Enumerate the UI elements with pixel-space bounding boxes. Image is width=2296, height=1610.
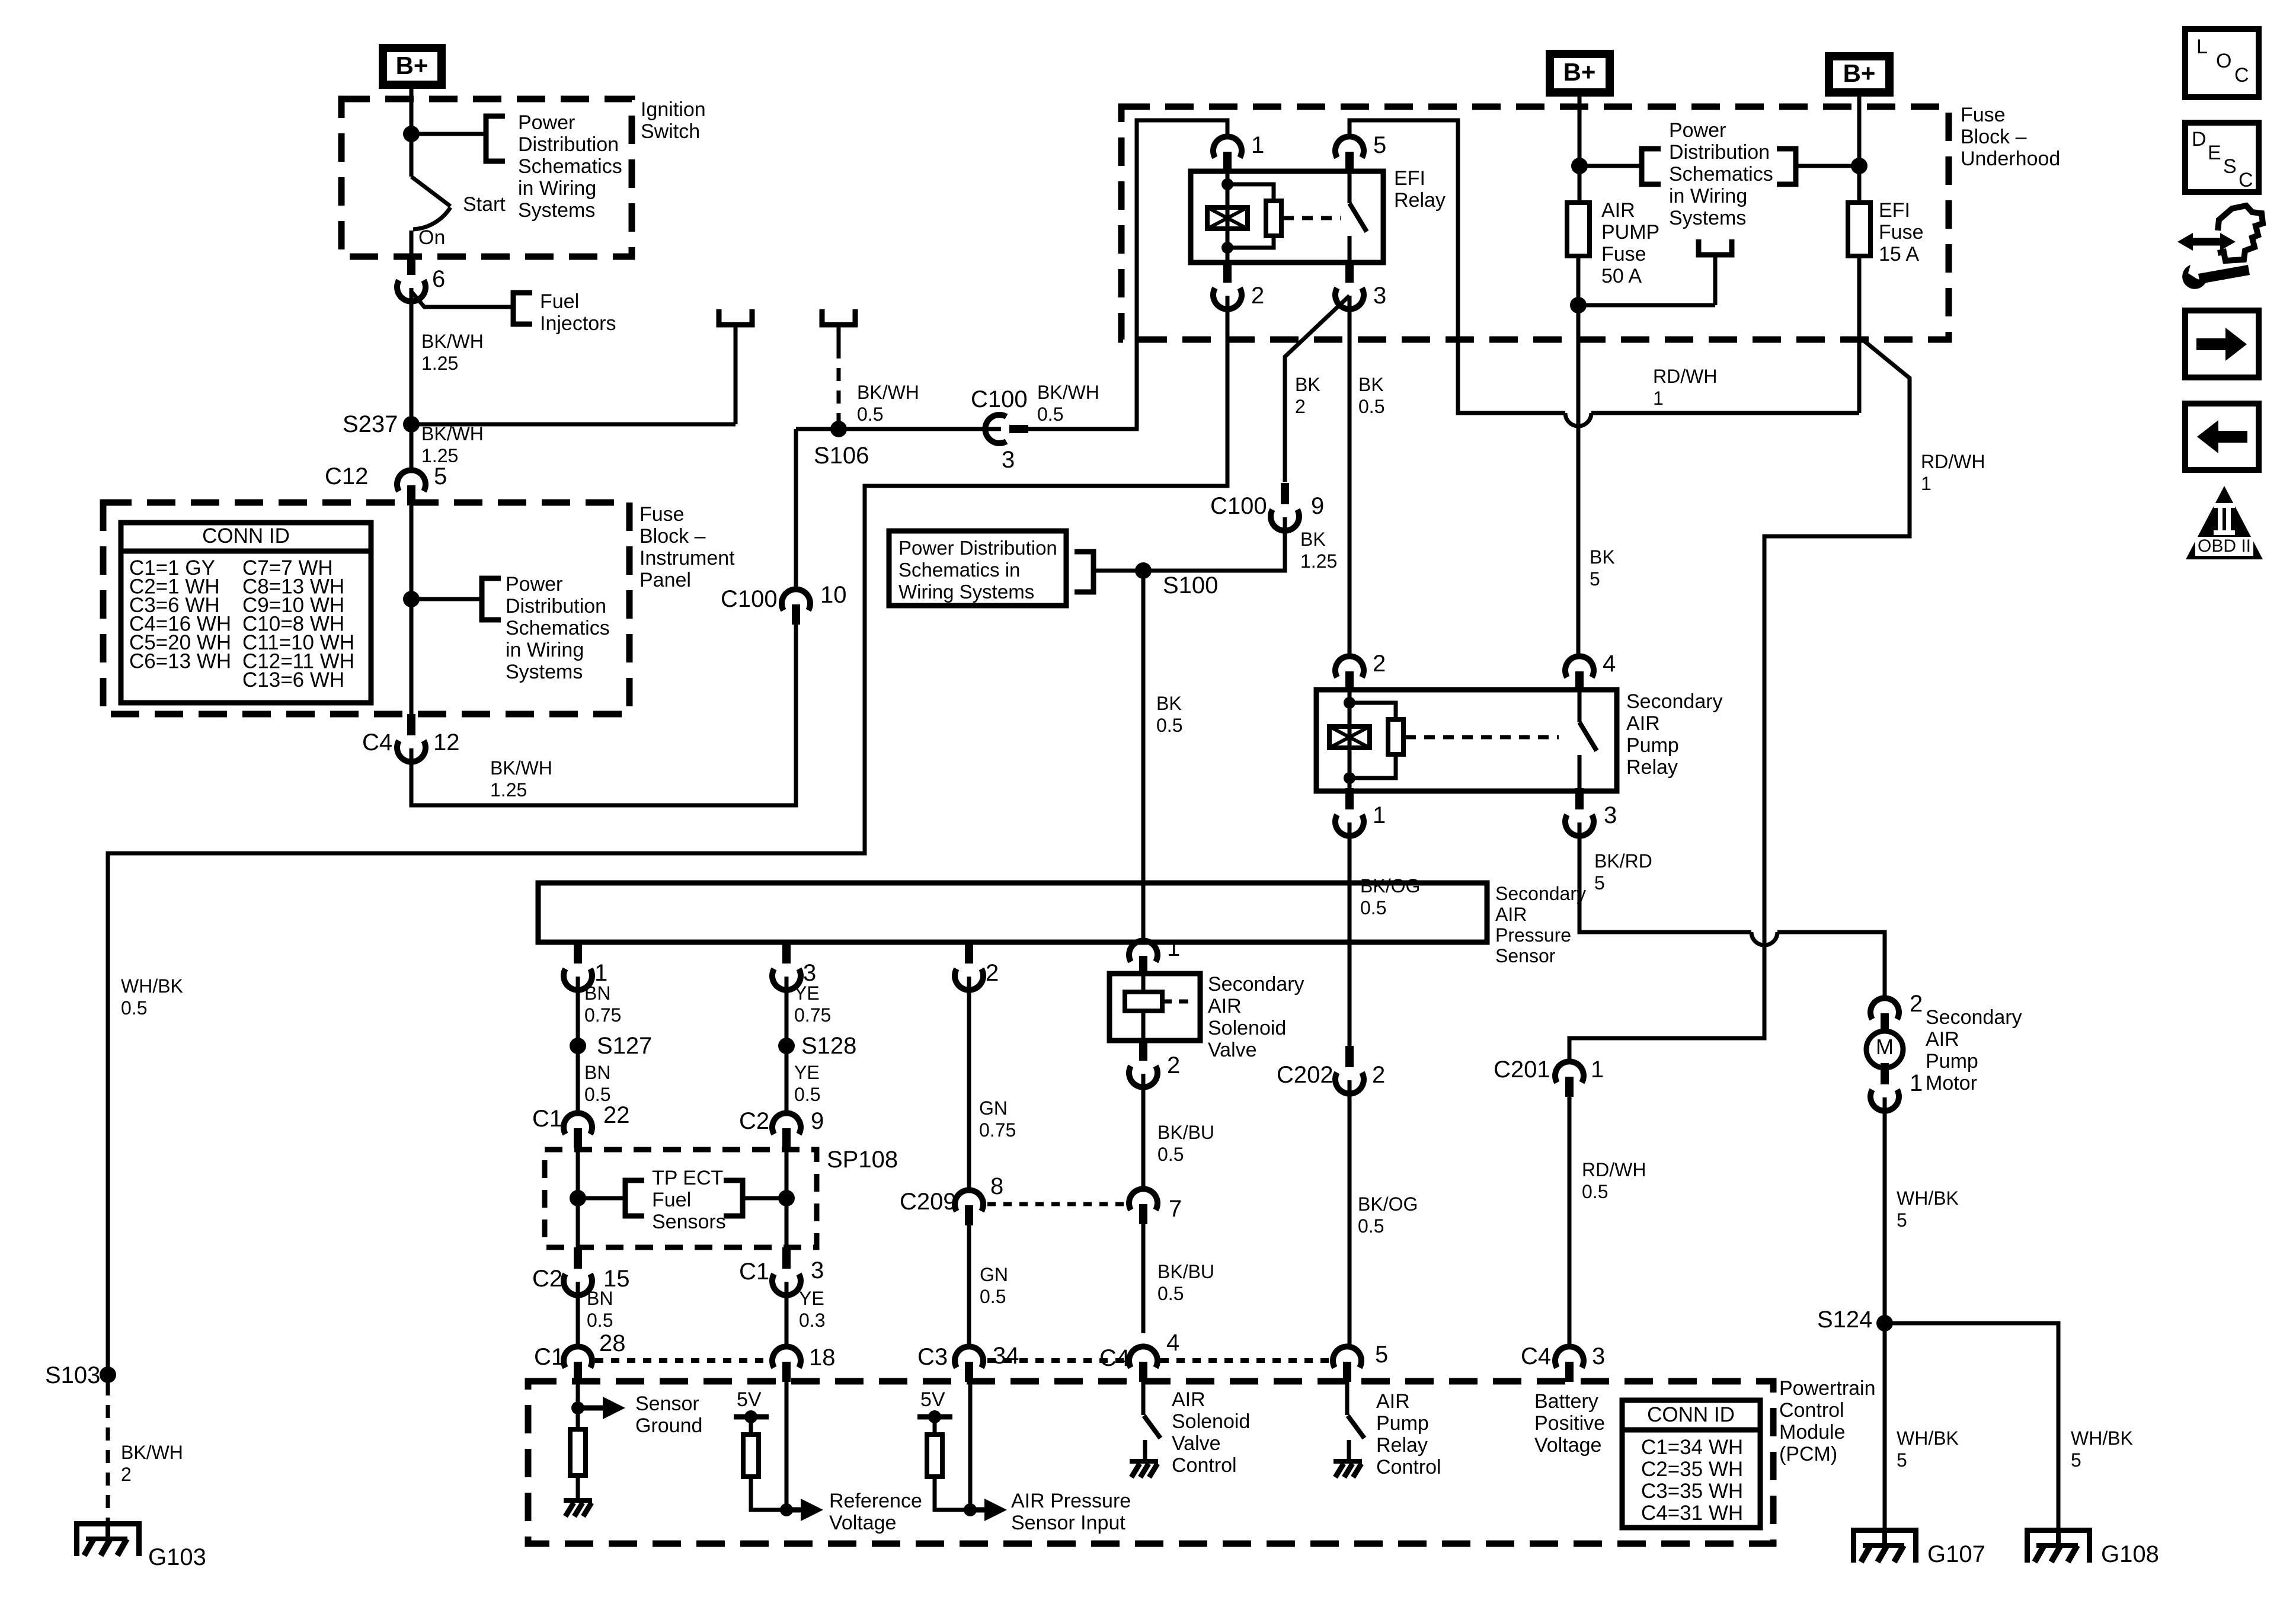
wire connector 6 to S237 (410, 288, 414, 424)
svg-text:Control: Control (1172, 1454, 1237, 1477)
svg-text:S103: S103 (45, 1362, 100, 1388)
svg-text:BK/WH: BK/WH (490, 757, 552, 779)
connector C209 pin 8 (955, 1190, 983, 1211)
wire leg stem (underhood) (1713, 255, 1718, 305)
svg-text:Schematics: Schematics (1669, 163, 1773, 185)
svg-text:Pump: Pump (1926, 1050, 1978, 1073)
svg-text:Start: Start (463, 193, 506, 216)
power symbol B+ (air pump fuse) (1546, 50, 1614, 97)
splice S103 (100, 1366, 116, 1383)
chassis ground pump relay control (1334, 1459, 1362, 1464)
connector SAP relay pin 1 (1345, 788, 1354, 809)
svg-text:C201: C201 (1494, 1057, 1550, 1083)
switch AIR solenoid valve control (1144, 1416, 1160, 1438)
svg-text:Switch: Switch (641, 120, 700, 143)
connector motor pin 2 (1870, 998, 1899, 1019)
svg-text:AIR: AIR (1208, 995, 1242, 1017)
svg-text:S128: S128 (801, 1033, 856, 1059)
svg-text:Relay: Relay (1394, 189, 1446, 212)
svg-text:Block –: Block – (639, 525, 706, 548)
wire motor to S124 (1883, 1097, 1887, 1528)
svg-text:Fuel: Fuel (652, 1189, 691, 1211)
svg-text:C3=35 WH: C3=35 WH (1641, 1480, 1743, 1503)
svg-text:C2: C2 (739, 1108, 769, 1134)
svg-text:BK/WH: BK/WH (857, 382, 919, 403)
wire B+ to EFI fuse (1857, 97, 1862, 203)
ground G107 (1851, 1528, 1918, 1533)
svg-text:Motor: Motor (1926, 1072, 1977, 1094)
svg-text:Sensor: Sensor (635, 1393, 699, 1415)
wire 5V to resistor (reference) (749, 1417, 753, 1435)
svg-text:G108: G108 (2101, 1541, 2159, 1567)
box Secondary AIR Solenoid Valve (1109, 974, 1200, 1041)
svg-text:Secondary: Secondary (1926, 1006, 2022, 1029)
svg-text:Battery: Battery (1534, 1390, 1598, 1413)
wire solenoid internal (1141, 976, 1146, 1041)
wire EFI fuse down (1857, 256, 1862, 413)
switch blade to Start (411, 177, 450, 206)
connector C2 pin 15 (574, 1247, 582, 1269)
junction dot air pump feed (1571, 158, 1588, 174)
icon OBD II triangle (2186, 486, 2263, 559)
wire S237 to PDS leg (411, 422, 736, 427)
box Secondary AIR Pressure Sensor (538, 883, 1487, 942)
arrow sensor ground (578, 1406, 603, 1411)
svg-text:AIR: AIR (1172, 1388, 1205, 1411)
junction dot fuse block IP (403, 591, 420, 607)
wire SAPS pin1 to S127 (576, 977, 580, 1113)
svg-text:BK/WH: BK/WH (421, 331, 484, 352)
motor circle M (1866, 1031, 1903, 1068)
bracket TP ECT right (724, 1180, 743, 1216)
leg bracket left (PDS) (719, 309, 752, 325)
svg-text:C2=35 WH: C2=35 WH (1641, 1458, 1743, 1481)
connector EFI relay pin 3 (1345, 261, 1354, 283)
svg-text:Pump: Pump (1376, 1412, 1429, 1435)
wire dot to bracket (IP) (411, 597, 482, 601)
svg-text:YE: YE (799, 1288, 824, 1309)
svg-text:Ground: Ground (635, 1414, 702, 1437)
CONN ID separator (121, 549, 371, 554)
svg-text:Systems: Systems (506, 661, 583, 683)
svg-text:BK/WH: BK/WH (421, 423, 484, 444)
svg-text:Fuel: Fuel (540, 290, 579, 313)
svg-text:0.5: 0.5 (1037, 404, 1063, 425)
svg-text:RD/WH: RD/WH (1653, 366, 1717, 387)
svg-text:5: 5 (1897, 1449, 1907, 1471)
dashed wire to S106 (837, 345, 841, 424)
wire C202 to PCM pin5 (1348, 1080, 1352, 1346)
dashed wire S103 to G103 (106, 1382, 110, 1521)
dashed link EFI relay (1283, 216, 1341, 220)
relay resistor EFI (1266, 201, 1281, 236)
svg-text:Panel: Panel (639, 569, 691, 591)
wire dot to bracket (underhood) (1579, 164, 1642, 168)
connector C1 pin 3 (782, 1247, 791, 1269)
svg-text:BK: BK (1358, 374, 1384, 395)
svg-text:C12: C12 (325, 463, 368, 489)
junction dot sensor input (964, 1503, 977, 1516)
dashed wire C209 to pin7 (987, 1202, 1130, 1206)
svg-text:Power: Power (518, 111, 575, 134)
splice S127 (570, 1038, 586, 1054)
icon box arrow left (2185, 404, 2259, 470)
connector SAP relay pin 4 (1565, 656, 1594, 677)
wire EFI coil vertical (1226, 171, 1230, 263)
icon arrow right (2196, 338, 2225, 350)
svg-text:5: 5 (434, 463, 447, 489)
junction dot SP108 left (570, 1190, 586, 1206)
svg-text:C1: C1 (534, 1344, 564, 1370)
svg-text:1: 1 (1251, 132, 1264, 158)
dashed box Fuse Block Underhood (1121, 107, 1949, 340)
wire SAP coil links (1350, 703, 1396, 778)
chassis ground solenoid control (1130, 1459, 1158, 1464)
junction dot reference voltage (780, 1503, 793, 1516)
wire resistor to arrow (reference) (751, 1475, 786, 1510)
icon car outline (2218, 206, 2263, 261)
resistor air pressure input (927, 1435, 942, 1477)
svg-text:BK/OG: BK/OG (1358, 1193, 1418, 1215)
svg-text:Schematics: Schematics (518, 155, 622, 178)
svg-text:2: 2 (1372, 1062, 1385, 1088)
svg-text:2: 2 (986, 960, 999, 986)
relay coil EFI (1207, 207, 1248, 229)
svg-text:1.25: 1.25 (1300, 550, 1337, 572)
connector EFI relay pin 2 (1223, 261, 1232, 283)
node junction dot ignition (403, 126, 420, 142)
svg-text:BK/BU: BK/BU (1157, 1122, 1214, 1143)
connector SAPS pin 3 (782, 942, 791, 964)
svg-text:AIR Pressure: AIR Pressure (1011, 1490, 1131, 1512)
switch AIR pump relay control (1348, 1416, 1364, 1438)
resistor sensor ground (570, 1429, 586, 1475)
wire C2-15 to PCM 28 (576, 1282, 580, 1346)
junction dot EFI coil bottom (1221, 242, 1233, 254)
svg-text:0.5: 0.5 (1358, 1215, 1384, 1237)
svg-text:RD/WH: RD/WH (1921, 451, 1985, 472)
chassis ground sensor (564, 1498, 592, 1503)
svg-text:Underhood: Underhood (1961, 148, 2060, 170)
connector C1 pin 22 (564, 1113, 592, 1134)
svg-text:Valve: Valve (1208, 1039, 1257, 1061)
svg-text:BK: BK (1156, 693, 1182, 714)
connector C4 pin 12 (407, 714, 415, 735)
wire EFI fuse diagonal RD/WH (1569, 338, 1910, 1061)
dashed box Powertrain Control Module (528, 1381, 1773, 1544)
wire TP ECT bracket right to dot (743, 1196, 786, 1201)
wire dot to leg (underhood) (1578, 303, 1715, 308)
svg-text:AIR: AIR (1926, 1028, 1959, 1051)
dotted row PCM connectors 28-18 (595, 1358, 769, 1363)
wire resistor to arrow (input) (935, 1475, 970, 1510)
svg-text:CONN ID: CONN ID (202, 524, 290, 548)
svg-text:3: 3 (1373, 283, 1386, 309)
svg-text:Secondary: Secondary (1626, 690, 1723, 713)
svg-text:Module: Module (1779, 1421, 1846, 1443)
svg-text:8: 8 (990, 1173, 1003, 1199)
svg-text:18: 18 (809, 1345, 836, 1371)
svg-text:4: 4 (1166, 1330, 1179, 1356)
svg-text:Ignition: Ignition (641, 98, 706, 121)
wire EFI coil links (1227, 184, 1274, 248)
connector SAPS pin 1 (574, 942, 582, 964)
svg-text:BN: BN (587, 1288, 613, 1309)
junction dot sensor ground (571, 1401, 584, 1414)
splice S128 (778, 1038, 795, 1054)
svg-text:C1: C1 (739, 1259, 769, 1285)
splice S100 (1135, 562, 1152, 579)
svg-text:C100: C100 (971, 386, 1028, 412)
svg-text:5: 5 (1590, 568, 1600, 590)
svg-text:Relay: Relay (1626, 756, 1678, 779)
svg-text:C209: C209 (900, 1189, 957, 1215)
svg-text:2: 2 (1251, 283, 1264, 309)
svg-text:Distribution: Distribution (518, 133, 619, 156)
svg-text:PUMP: PUMP (1601, 221, 1659, 244)
svg-text:5: 5 (1373, 132, 1386, 158)
svg-text:C2: C2 (532, 1266, 562, 1292)
svg-text:C3: C3 (917, 1344, 948, 1370)
junction dot EFI fuse feed (1851, 158, 1868, 174)
svg-text:C: C (2234, 64, 2249, 87)
dashed box SP108 (545, 1150, 817, 1247)
svg-text:Control: Control (1376, 1456, 1441, 1478)
svg-text:BK: BK (1295, 374, 1320, 395)
svg-text:0.5: 0.5 (1156, 715, 1182, 736)
svg-text:Sensor Input: Sensor Input (1011, 1512, 1125, 1534)
svg-text:S237: S237 (343, 411, 398, 437)
svg-text:Instrument: Instrument (639, 547, 735, 569)
wire pin7 to PCM pin4 (1141, 1224, 1146, 1333)
junction dot 5V sensor input (928, 1410, 941, 1423)
svg-text:28: 28 (599, 1330, 626, 1356)
svg-text:C100: C100 (1210, 493, 1267, 519)
connector motor pin 1 (1881, 1063, 1889, 1084)
svg-text:50 A: 50 A (1601, 265, 1642, 287)
svg-text:GN: GN (980, 1264, 1008, 1285)
svg-text:On: On (418, 226, 445, 249)
svg-text:C4=31 WH: C4=31 WH (1641, 1502, 1743, 1525)
CONN ID separator (PCM) (1622, 1427, 1760, 1433)
svg-text:Positive: Positive (1534, 1412, 1605, 1435)
svg-text:S106: S106 (814, 443, 869, 469)
connector SAP relay pin 3 (1575, 788, 1584, 809)
svg-text:Power Distribution: Power Distribution (898, 537, 1057, 559)
wire leg to S237 row (734, 325, 738, 424)
svg-text:EFI: EFI (1394, 167, 1425, 190)
5V supply bar (reference) (734, 1414, 769, 1420)
dashed box Fuse Block Instrument Panel (103, 502, 629, 714)
svg-text:Fuse: Fuse (639, 503, 685, 526)
svg-text:Voltage: Voltage (1534, 1434, 1601, 1457)
wire S237 to C12-5 (410, 424, 414, 470)
wire YE inside SP108 (785, 1148, 789, 1247)
svg-text:WH/BK: WH/BK (2071, 1427, 2133, 1449)
connector C201 pin 1 (1555, 1061, 1584, 1083)
svg-text:D: D (2192, 128, 2207, 151)
wire S124 to G108 (1885, 1323, 2058, 1528)
wire C209 to PCM 34 (967, 1225, 971, 1346)
power symbol B+ (ignition feed) (379, 44, 446, 89)
svg-text:S100: S100 (1163, 572, 1218, 598)
wire B+ to ignition switch node (410, 89, 414, 134)
wire bracket to EFI fuse column (1796, 164, 1859, 168)
svg-text:Valve: Valve (1172, 1432, 1221, 1455)
svg-text:BK/WH: BK/WH (1037, 382, 1099, 403)
svg-text:5V: 5V (737, 1388, 762, 1411)
svg-text:3: 3 (1604, 802, 1617, 828)
power symbol B+ (EFI fuse) (1825, 52, 1894, 97)
wire EFI pin3 straight BK0.5 (1348, 296, 1352, 656)
svg-text:Pressure: Pressure (1495, 924, 1571, 946)
svg-text:Distribution: Distribution (1669, 141, 1770, 164)
svg-text:Systems: Systems (518, 199, 595, 222)
CONN ID table box (PCM) (1622, 1400, 1760, 1528)
svg-text:0.5: 0.5 (121, 997, 147, 1019)
svg-text:WH/BK: WH/BK (121, 975, 183, 997)
svg-text:S124: S124 (1817, 1307, 1872, 1333)
fuse AIR PUMP 50A (1567, 203, 1590, 256)
svg-text:O: O (2216, 50, 2231, 72)
svg-text:15 A: 15 A (1879, 243, 1919, 265)
switch wire upper (410, 134, 414, 177)
connector pin 5 (PCM) (1333, 1346, 1361, 1368)
connector C4 pin 3 (PCM) (1555, 1346, 1584, 1368)
wire 5V to resistor (input) (933, 1417, 937, 1435)
svg-text:2: 2 (1295, 396, 1306, 417)
svg-text:12: 12 (433, 729, 460, 756)
svg-text:0.75: 0.75 (584, 1004, 621, 1026)
dashed link solenoid (1162, 1000, 1192, 1004)
svg-text:BK/OG: BK/OG (1360, 875, 1420, 897)
wire C1-3 to PCM 18 (785, 1282, 789, 1346)
bracket to power distribution text (ignition) (486, 116, 505, 161)
svg-text:Fuse: Fuse (1879, 221, 1924, 244)
svg-text:0.5: 0.5 (1360, 897, 1386, 918)
bracket right (underhood) (1777, 149, 1796, 184)
connector EFI relay pin 1 (1213, 136, 1242, 158)
svg-text:6: 6 (432, 266, 445, 292)
svg-text:G107: G107 (1927, 1541, 1985, 1567)
bracket fuel injectors (513, 293, 532, 324)
svg-text:Pump: Pump (1626, 734, 1679, 757)
svg-text:1: 1 (1373, 802, 1386, 828)
svg-text:BK: BK (1300, 529, 1326, 550)
svg-text:Secondary: Secondary (1208, 973, 1304, 996)
svg-text:SP108: SP108 (827, 1147, 898, 1173)
leg bracket right (PDS) (822, 309, 855, 325)
junction dot SP108 right (778, 1190, 795, 1206)
svg-text:5V: 5V (920, 1388, 945, 1411)
svg-text:OBD II: OBD II (2198, 536, 2251, 556)
svg-text:0.5: 0.5 (1157, 1283, 1184, 1304)
svg-text:C6=13 WH: C6=13 WH (129, 650, 231, 673)
svg-text:2: 2 (1373, 651, 1386, 677)
dashed link SAP relay (1405, 735, 1559, 740)
wire 18 down to dot (785, 1382, 789, 1510)
svg-text:2: 2 (1910, 991, 1923, 1017)
connector SAP relay pin 2 (1335, 656, 1364, 677)
svg-text:WH/BK: WH/BK (1897, 1427, 1959, 1449)
junction dot 5V reference (744, 1410, 757, 1423)
svg-text:34: 34 (993, 1343, 1019, 1369)
junction dot below air pump fuse (1570, 297, 1587, 313)
junction dot SAP coil bottom (1344, 772, 1355, 784)
svg-text:L: L (2196, 36, 2208, 58)
svg-text:3: 3 (811, 1257, 824, 1283)
relay box Secondary AIR Pump (1316, 690, 1617, 791)
dotted row PCM connectors 34-4 (987, 1358, 1126, 1363)
svg-text:0.3: 0.3 (799, 1310, 825, 1331)
svg-text:C202: C202 (1277, 1062, 1334, 1088)
wire SAP pin1 to C202 (1348, 822, 1352, 1047)
svg-text:5: 5 (1897, 1209, 1907, 1231)
svg-text:22: 22 (603, 1102, 630, 1128)
connector C3 pin 34 (955, 1346, 983, 1368)
svg-text:BK/WH: BK/WH (121, 1442, 183, 1463)
svg-text:BK/RD: BK/RD (1594, 850, 1652, 872)
svg-text:AIR: AIR (1626, 712, 1660, 735)
svg-text:Powertrain: Powertrain (1779, 1377, 1876, 1400)
svg-text:Sensors: Sensors (652, 1211, 726, 1233)
svg-text:0.5: 0.5 (1358, 396, 1384, 417)
svg-text:B+: B+ (1563, 58, 1596, 86)
svg-text:C100: C100 (721, 586, 778, 612)
svg-text:YE: YE (794, 982, 820, 1004)
wire C201 to PCM C4-3 (1568, 1097, 1572, 1346)
svg-text:Solenoid: Solenoid (1172, 1410, 1250, 1433)
svg-text:C4: C4 (1099, 1345, 1130, 1371)
wire to fuel injectors (411, 292, 513, 307)
svg-text:Solenoid: Solenoid (1208, 1017, 1286, 1039)
svg-text:5: 5 (1594, 872, 1605, 894)
svg-text:0.75: 0.75 (794, 1004, 831, 1026)
svg-text:B+: B+ (396, 52, 428, 79)
svg-text:CONN ID: CONN ID (1647, 1403, 1735, 1426)
svg-text:in Wiring: in Wiring (1669, 185, 1747, 207)
svg-text:Schematics in: Schematics in (898, 559, 1020, 581)
bracket power distribution (IP) (482, 578, 501, 620)
svg-text:1.25: 1.25 (421, 353, 458, 374)
svg-text:C4: C4 (1521, 1343, 1551, 1369)
svg-text:1: 1 (1921, 473, 1932, 494)
wire S106 horizontal (796, 427, 1001, 431)
svg-text:Voltage: Voltage (829, 1512, 896, 1534)
svg-text:1: 1 (1591, 1057, 1604, 1083)
svg-text:AIR: AIR (1376, 1390, 1410, 1413)
icon arrow left (2218, 431, 2247, 443)
svg-text:3: 3 (1592, 1343, 1605, 1369)
icon box arrow right (2185, 311, 2259, 377)
connector C4 pin 4 (1129, 1346, 1157, 1368)
connector C1 pin 28 (564, 1346, 592, 1368)
svg-text:Schematics: Schematics (506, 617, 610, 639)
wire pin4 into PCM (1141, 1382, 1146, 1415)
fuse EFI 15A (1848, 203, 1870, 256)
resistor reference voltage (743, 1435, 759, 1477)
wire S100 to solenoid valve (1141, 571, 1146, 940)
svg-text:Power: Power (506, 573, 562, 596)
svg-text:in Wiring: in Wiring (518, 177, 596, 200)
svg-text:AIR: AIR (1601, 199, 1635, 222)
svg-text:Power: Power (1669, 119, 1726, 142)
connector 6 (ignition switch output) (407, 254, 415, 275)
svg-text:1: 1 (1167, 935, 1180, 961)
junction dot EFI coil top (1221, 178, 1233, 190)
svg-text:AIR: AIR (1495, 904, 1527, 925)
bracket TP ECT left (625, 1180, 644, 1216)
